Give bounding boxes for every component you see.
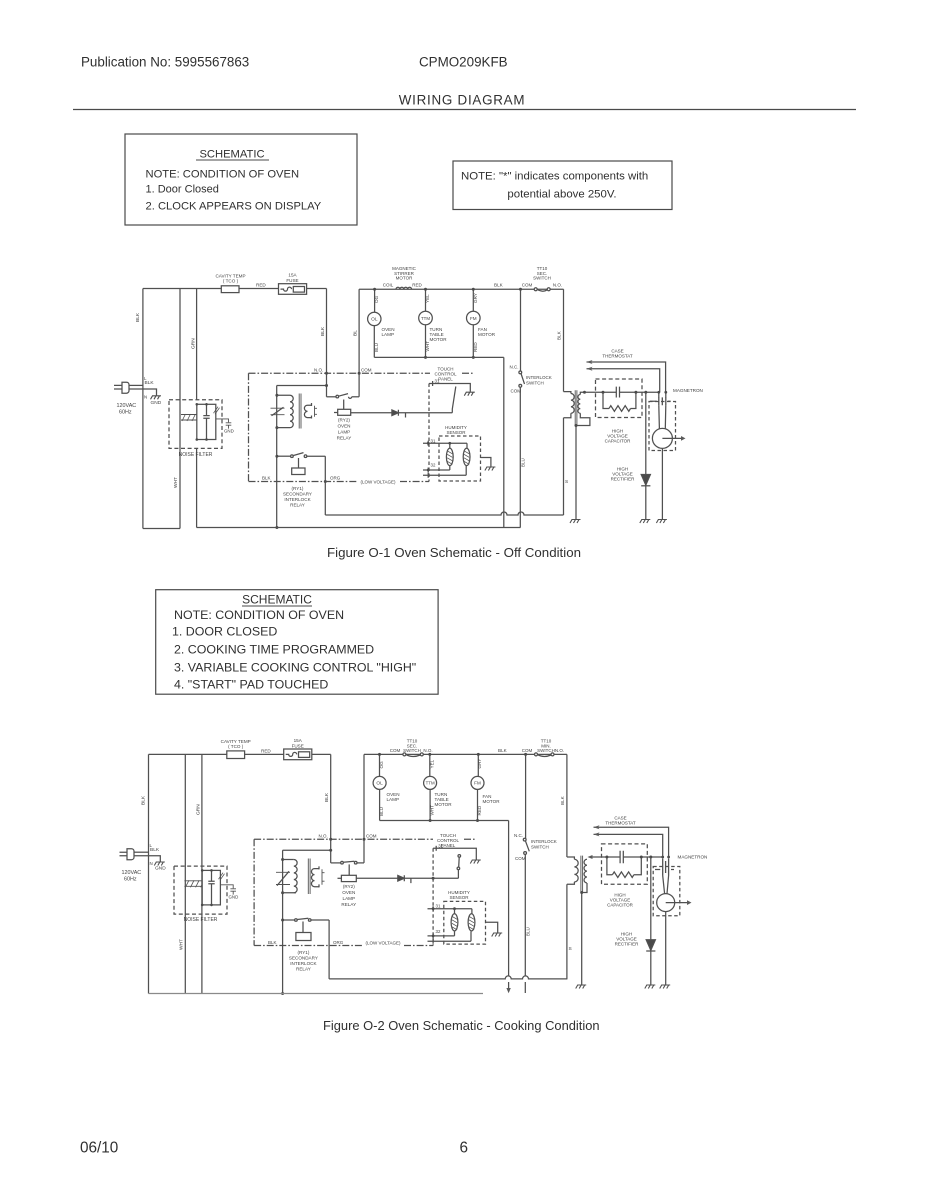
svg-text:2. CLOCK APPEARS ON DISPLAY: 2. CLOCK APPEARS ON DISPLAY — [146, 201, 322, 213]
svg-text:BLU: BLU — [526, 927, 531, 936]
label WHT rotated (fig 2) — [179, 939, 185, 950]
svg-text:(LOW VOLTAGE): (LOW VOLTAGE) — [365, 941, 401, 946]
magnetron filament — [650, 392, 671, 405]
svg-text:LAMP: LAMP — [343, 896, 356, 901]
svg-text:GRY: GRY — [473, 293, 478, 303]
ground humidity sensor (fig 2) — [492, 933, 503, 937]
fan motor FM (fig 2) — [471, 754, 500, 820]
svg-text:NOTE: CONDITION OF OVEN: NOTE: CONDITION OF OVEN — [174, 608, 344, 622]
svg-text:RED: RED — [477, 805, 482, 815]
transformer T2 LVT primary (fig 2) — [283, 860, 298, 893]
svg-text:INTERLOCK: INTERLOCK — [284, 497, 311, 502]
svg-text:120VAC: 120VAC — [117, 403, 137, 409]
humidity sensor element 2 — [463, 443, 470, 475]
relay RY1 contact closed (fig 2) — [283, 918, 330, 979]
wire RY2 coil output (fig 2) — [356, 877, 398, 879]
node filament left (fig 2) — [661, 856, 664, 859]
resistor R1 bleed — [603, 392, 636, 411]
svg-text:BLK: BLK — [498, 748, 508, 753]
node L N (fig 2) — [150, 843, 153, 866]
node LVT bottom line — [275, 526, 278, 529]
humidity sensor pins — [423, 438, 467, 477]
svg-text:MAGNETRON: MAGNETRON — [678, 855, 708, 860]
label NOISE FILTER (fig 2) — [184, 917, 218, 923]
relay RY1 coil (fig 2) — [296, 922, 311, 941]
wire motor bottom bus — [374, 356, 504, 358]
pcb boundary dash-dot left (fig 2) — [253, 839, 255, 945]
diode D1 high voltage rectifier (fig 2) — [646, 857, 655, 985]
node pcb crossing right — [358, 372, 361, 375]
wire motor bus drop with arrow end (fig 2) — [506, 821, 510, 994]
wire bottom neutral line (fig 2) — [149, 993, 484, 995]
svg-text:WHT: WHT — [430, 805, 435, 816]
magnetron tube (fig 2) — [657, 876, 692, 986]
transformer T2 secondary (fig 2) — [311, 866, 324, 887]
note box schematic off condition — [125, 134, 357, 225]
node TTM top (fig 2) — [428, 753, 431, 756]
svg-text:BLK: BLK — [320, 326, 326, 336]
wire plug ground lead (fig 2) — [134, 856, 160, 862]
svg-text:CAPACITOR: CAPACITOR — [607, 903, 634, 908]
svg-text:15A: 15A — [294, 738, 303, 743]
label WHT rotated — [173, 477, 179, 488]
svg-text:THERMOSTAT: THERMOSTAT — [602, 354, 633, 359]
humidity sensor element 1 — [446, 443, 453, 470]
svg-text:GRY: GRY — [477, 759, 482, 769]
svg-text:SCHEMATIC: SCHEMATIC — [242, 593, 312, 607]
svg-text:GND: GND — [151, 400, 162, 406]
svg-text:COM: COM — [366, 834, 377, 839]
node FM bottom (fig 2) — [476, 819, 479, 822]
label S primary — [565, 479, 568, 485]
svg-text:THERMOSTAT: THERMOSTAT — [605, 821, 636, 826]
svg-text:RED: RED — [261, 749, 271, 754]
svg-text:WHT: WHT — [425, 341, 430, 352]
svg-text:LAMP: LAMP — [387, 797, 400, 802]
svg-text:S: S — [569, 946, 572, 952]
svg-text:PANEL: PANEL — [438, 377, 453, 382]
label N.O. COM above pcb top (fig 2) — [319, 834, 377, 839]
capacitor C1 plates — [616, 387, 619, 398]
svg-text:potential above 250V.: potential above 250V. — [507, 189, 616, 201]
node junction fuse drop / LVT feed — [325, 384, 328, 387]
svg-text:RELAY: RELAY — [296, 967, 311, 972]
svg-text:COM: COM — [522, 748, 533, 753]
label BLK ORG pcb bottom (fig 2) — [268, 940, 344, 945]
wire LVT feed (fig 2) — [283, 849, 331, 851]
diode D2 (fig 2) — [398, 875, 459, 883]
door interlock switch S1 — [510, 289, 552, 527]
label RY1 relay (fig 2) — [289, 950, 318, 972]
cavity temp thermal cutout TCO (fig 2) — [221, 739, 251, 759]
timer switch TT10 — [522, 266, 562, 291]
wire riser to top line segment B — [358, 289, 360, 397]
wire motor bus drop — [503, 357, 505, 527]
label humidity sensor — [445, 425, 467, 435]
svg-text:COM: COM — [515, 856, 526, 861]
node HV wire start — [583, 391, 586, 394]
svg-text:MOTOR: MOTOR — [430, 337, 448, 342]
resistor R1 bleed (fig 2) — [607, 857, 641, 878]
svg-text:BLK: BLK — [262, 476, 271, 481]
transformer T1 HV secondary — [576, 392, 590, 425]
cavity temp thermal cutout TCO — [215, 274, 245, 293]
humidity sensor output to ground (fig 2) — [486, 922, 498, 932]
ground magnetron — [656, 520, 667, 524]
wire mid return line with hops (fig 2) — [329, 976, 567, 979]
svg-text:(RY2): (RY2) — [338, 418, 350, 423]
svg-text:ORG: ORG — [333, 940, 344, 945]
touch panel relay blade (fig 2) — [457, 855, 461, 879]
node filament right (fig 2) — [667, 856, 670, 859]
wire LVT vertical — [276, 386, 278, 528]
node secondary to core — [575, 424, 578, 427]
label humidity sensor (fig 2) — [448, 890, 470, 900]
magnetron tube — [652, 405, 685, 519]
power cord plug P1 (fig 2) — [120, 849, 135, 860]
HV capacitor dashed box — [596, 379, 643, 418]
magnetron filament (fig 2) — [655, 859, 674, 876]
relay RY1 contact (secondary interlock) — [277, 453, 326, 515]
touch panel pin wire — [429, 379, 470, 392]
svg-text:OG: OG — [379, 761, 384, 769]
svg-text:SWITCH: SWITCH — [526, 380, 544, 385]
wire top right drop to HV transformer — [563, 289, 565, 391]
svg-text:INTERLOCK: INTERLOCK — [526, 375, 552, 380]
wire plug to cord (fig 2) — [134, 851, 149, 853]
svg-text:1. DOOR CLOSED: 1. DOOR CLOSED — [172, 625, 277, 639]
stirrer motor winding on line — [383, 266, 423, 289]
relay RY2 coil — [334, 400, 351, 441]
transformer T1 core — [575, 390, 577, 425]
ground touch panel (fig 2) — [470, 860, 481, 864]
pcb boundary dash-dot bottom — [249, 481, 430, 483]
label LOW VOLTAGE on pcb edge — [360, 479, 396, 484]
svg-text:N.O.: N.O. — [423, 748, 432, 753]
svg-text:ORG: ORG — [330, 476, 341, 481]
svg-text:SWITCH: SWITCH — [531, 844, 549, 849]
label BLK rotated (fig 2) — [141, 795, 147, 805]
turntable motor TTM — [419, 289, 447, 357]
title rule — [73, 109, 856, 111]
label BLK segment B — [494, 283, 504, 288]
wire green conductor lower — [196, 448, 198, 527]
svg-text:COIL: COIL — [383, 283, 394, 288]
capacitor C1 plates (fig 2) — [620, 851, 623, 863]
wire top line segment B — [359, 288, 563, 290]
humidity sensor dashed box — [439, 436, 481, 481]
wire cord bottom — [143, 528, 180, 530]
transformer T2 core (fig 2) — [308, 859, 310, 895]
noise filter capacitor block — [196, 403, 234, 441]
label NOISE FILTER — [179, 452, 213, 458]
svg-text:BLU: BLU — [521, 458, 526, 467]
svg-text:SENSOR: SENSOR — [446, 430, 466, 435]
svg-text:YEL: YEL — [430, 759, 435, 768]
svg-text:4. "START" PAD TOUCHED: 4. "START" PAD TOUCHED — [174, 678, 328, 692]
svg-text:RECTIFIER: RECTIFIER — [611, 477, 636, 482]
node lamp top — [373, 288, 376, 291]
svg-text:31: 31 — [438, 843, 443, 848]
node resistor left (fig 2) — [605, 856, 608, 859]
turntable motor TTM (fig 2) — [424, 754, 453, 820]
svg-text:RED: RED — [412, 283, 422, 288]
humidity sensor dashed box (fig 2) — [444, 901, 486, 944]
svg-text:LAMP: LAMP — [338, 430, 351, 435]
wire LVT vertical (fig 2) — [282, 850, 284, 993]
svg-text:TTM: TTM — [421, 316, 430, 321]
wire top line segment B (fig 2) — [364, 753, 567, 755]
noise filter choke (fig 2) — [184, 880, 204, 887]
label 120VAC 60Hz (fig 2) — [122, 870, 142, 883]
node resistor right — [634, 391, 637, 394]
label BLK right drop — [557, 330, 562, 340]
label TOUCH CONTROL PANEL (fig 2) — [437, 833, 459, 848]
svg-text:SWITCH: SWITCH — [533, 276, 551, 281]
wire green conductor upper — [196, 289, 198, 400]
svg-text:( TCO ): ( TCO ) — [228, 744, 244, 749]
ground transformer core (fig 2) — [576, 985, 587, 989]
svg-text:31: 31 — [431, 438, 436, 443]
node LVT top tap — [275, 394, 278, 397]
label BLK segment B (fig 2) — [498, 748, 508, 753]
svg-text:2. COOKING TIME PROGRAMMED: 2. COOKING TIME PROGRAMMED — [174, 643, 374, 657]
svg-text:GND: GND — [224, 429, 234, 434]
svg-text:N: N — [144, 395, 147, 400]
varistor MOV — [271, 407, 285, 416]
node LVT bottom tap — [275, 426, 278, 429]
svg-text:NOISE FILTER: NOISE FILTER — [184, 917, 218, 923]
humidity sensor pins (fig 2) — [428, 904, 472, 944]
transformer T2 secondary — [304, 403, 317, 419]
case thermostat lead lower (fig 2) — [594, 832, 663, 857]
note box schematic cooking condition — [156, 590, 438, 695]
node pcb crossing left — [325, 372, 328, 375]
node diode tap — [644, 391, 647, 394]
label BLK pcb bottom left — [262, 476, 341, 481]
svg-text:BLK: BLK — [560, 795, 565, 805]
svg-text:(RY1): (RY1) — [292, 486, 304, 491]
node interlock top — [519, 288, 522, 291]
power cord plug P1 — [114, 382, 129, 393]
case thermostat lead upper — [587, 360, 666, 392]
node FM bottom — [472, 356, 475, 359]
svg-text:COM: COM — [390, 748, 401, 753]
case thermostat label (fig 2) — [605, 816, 636, 826]
transformer T1 core (fig 2) — [581, 856, 583, 893]
transformer T2 core — [299, 394, 301, 429]
wire plug ground lead — [129, 389, 157, 396]
label BLK rotated on drop (fig 2) — [324, 792, 330, 802]
label BLK plug — [145, 380, 155, 386]
HV capacitor dashed box (fig 2) — [602, 844, 648, 884]
node filament left — [657, 391, 660, 394]
label MAGNETRON (fig 2) — [678, 855, 708, 860]
wire top line segment A — [143, 288, 327, 290]
ground diode — [640, 520, 651, 524]
svg-text:CAPACITOR: CAPACITOR — [605, 439, 632, 444]
svg-text:SWITCH: SWITCH — [403, 748, 421, 753]
noise filter capacitor block (fig 2) — [201, 869, 238, 906]
svg-text:06/10: 06/10 — [80, 1140, 118, 1157]
svg-text:Figure O-1 Oven Schematic - Of: Figure O-1 Oven Schematic - Off Conditio… — [327, 545, 581, 560]
svg-text:32: 32 — [431, 463, 436, 468]
svg-text:BL: BL — [353, 330, 359, 336]
svg-text:SECONDARY: SECONDARY — [283, 492, 312, 497]
label S primary (fig 2) — [569, 946, 572, 952]
wire top right drop to HV transformer (fig 2) — [566, 754, 568, 857]
svg-text:COM: COM — [522, 283, 533, 288]
label GRN rotated — [191, 338, 197, 349]
wire cord right conductor WHT — [179, 289, 181, 529]
svg-text:RELAY: RELAY — [337, 436, 352, 441]
noise filter choke — [181, 414, 201, 421]
svg-text:YEL: YEL — [425, 294, 430, 303]
humidity sensor element 2 (fig 2) — [468, 909, 475, 942]
noise filter dashed box — [169, 400, 222, 449]
fuse F1 line fuse — [279, 273, 307, 295]
svg-text:FM: FM — [470, 316, 477, 321]
node RY1 corner crossing pcb edge — [324, 480, 327, 483]
relay RY1 coil — [292, 458, 305, 475]
label BLK rotated — [135, 312, 141, 322]
transformer T1 HV secondary (fig 2) — [582, 859, 587, 892]
wire LVT feed — [277, 385, 327, 387]
wire bottom neutral line — [197, 527, 521, 529]
node resistor right (fig 2) — [640, 856, 643, 859]
svg-text:MAGNETRON: MAGNETRON — [673, 388, 703, 393]
node RY1 left (fig 2) — [281, 919, 284, 922]
svg-text:N.O.: N.O. — [555, 748, 564, 753]
pcb boundary dash-dot top (fig 2) — [254, 838, 476, 840]
node secondary to core (fig 2) — [580, 891, 583, 894]
svg-text:OVEN: OVEN — [342, 890, 355, 895]
label BL rotated on riser — [353, 330, 359, 336]
wire cord left conductor BLK — [142, 289, 144, 529]
wire motor bottom bus (fig 2) — [380, 820, 509, 822]
ground magnetron (fig 2) — [660, 985, 671, 989]
label high voltage capacitor (fig 2) — [607, 893, 634, 908]
node TTM top — [424, 288, 427, 291]
node diode tap (fig 2) — [649, 856, 652, 859]
svg-text:OL: OL — [376, 781, 383, 787]
svg-text:GND: GND — [229, 895, 239, 900]
svg-text:RED: RED — [256, 283, 266, 288]
fuse F1 line fuse (fig 2) — [284, 738, 312, 760]
svg-text:SCHEMATIC: SCHEMATIC — [199, 149, 264, 161]
node TTM bottom (fig 2) — [429, 819, 432, 822]
svg-text:OG: OG — [374, 295, 379, 303]
wire mid return line with hops — [325, 512, 563, 515]
case thermostat label — [602, 349, 633, 359]
svg-text:BLK: BLK — [494, 283, 504, 288]
note box 250V warning — [453, 161, 672, 210]
label GRN rotated (fig 2) — [196, 804, 202, 815]
humidity sensor element 1 (fig 2) — [451, 909, 458, 936]
pcb boundary dash-dot bottom (fig 2) — [254, 945, 433, 947]
fan motor FM — [467, 289, 496, 357]
case thermostat lead lower — [587, 367, 660, 393]
label LOW VOLTAGE on pcb edge (fig 2) — [365, 941, 401, 946]
label BLK rotated on drop — [320, 326, 326, 336]
svg-text:Figure O-2 Oven Schematic - Co: Figure O-2 Oven Schematic - Cooking Cond… — [323, 1018, 600, 1033]
svg-text:BLU: BLU — [379, 807, 384, 816]
node panel wire (fig 2) — [432, 877, 435, 880]
wire cord right conductor (fig 2) — [184, 754, 186, 993]
ground plug GND (fig 2) — [154, 862, 165, 866]
node feed junction (fig 2) — [329, 849, 332, 852]
wire HV bus — [585, 391, 659, 393]
svg-text:OL: OL — [371, 317, 378, 323]
node TTM bottom — [424, 356, 427, 359]
svg-text:BLK: BLK — [141, 795, 147, 805]
node lamp top (fig 2) — [378, 753, 381, 756]
svg-text:LAMP: LAMP — [382, 332, 395, 337]
node FM top (fig 2) — [477, 753, 480, 756]
node pcb crossing left (fig 2) — [329, 838, 332, 841]
ground diode (fig 2) — [645, 985, 656, 989]
wire top line segment A (fig 2) — [149, 753, 331, 755]
wire RY2 coil output — [351, 412, 392, 414]
svg-text:FM: FM — [474, 781, 481, 786]
header publication number — [81, 55, 508, 70]
label RY1 secondary interlock relay — [283, 486, 312, 508]
wire plug line to cord — [129, 384, 143, 386]
ground plug GND — [151, 396, 162, 400]
svg-text:(RY2): (RY2) — [343, 884, 355, 889]
ground transformer core — [570, 520, 581, 524]
magnetron dashed box — [649, 402, 676, 451]
svg-text:MOTOR: MOTOR — [483, 799, 501, 804]
svg-text:N.C.: N.C. — [514, 833, 523, 838]
svg-text:GND: GND — [155, 866, 166, 872]
transformer T2 low voltage primary — [277, 395, 293, 427]
label BLK right drop (fig 2) — [560, 795, 565, 805]
svg-text:BLU: BLU — [374, 343, 379, 352]
svg-text:WIRING DIAGRAM: WIRING DIAGRAM — [399, 93, 526, 108]
svg-text:(RY1): (RY1) — [297, 950, 309, 955]
node LVT bottom wire (fig 2) — [281, 992, 284, 995]
node L — [144, 376, 147, 400]
noise filter dashed box (fig 2) — [174, 866, 227, 914]
oven lamp OL (fig 2) — [373, 754, 399, 820]
svg-text:FUSE: FUSE — [286, 278, 298, 283]
diode D1 high voltage rectifier — [641, 392, 650, 519]
pcb boundary dash-dot top — [249, 372, 475, 374]
svg-text:S: S — [565, 479, 568, 485]
wire riser to segment B (fig 2) — [363, 754, 365, 863]
svg-text:GRN: GRN — [191, 338, 197, 349]
svg-text:15A: 15A — [288, 273, 297, 278]
label RED — [256, 283, 266, 288]
svg-text:SENSOR: SENSOR — [449, 895, 469, 900]
svg-text:SWITCH: SWITCH — [537, 748, 555, 753]
svg-text:BLK: BLK — [268, 940, 277, 945]
svg-text:MOTOR: MOTOR — [435, 802, 453, 807]
case thermostat lead upper (fig 2) — [594, 825, 669, 857]
svg-text:SECONDARY: SECONDARY — [289, 956, 318, 961]
ground humidity sensor — [485, 467, 496, 471]
svg-text:BLK: BLK — [324, 792, 330, 802]
svg-text:TTM: TTM — [426, 781, 435, 786]
svg-text:31: 31 — [435, 379, 440, 384]
svg-text:N.O.: N.O. — [319, 834, 328, 839]
svg-text:N: N — [150, 861, 153, 866]
svg-text:N.O.: N.O. — [314, 368, 323, 373]
svg-text:CPMO209KFB: CPMO209KFB — [419, 55, 508, 70]
svg-text:N.O.: N.O. — [553, 283, 562, 288]
label TOUCH CONTROL PANEL — [434, 367, 456, 382]
